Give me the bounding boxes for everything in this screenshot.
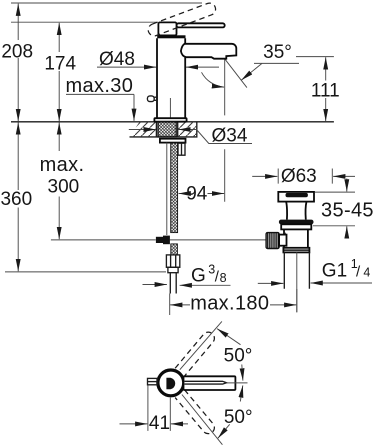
- pull rod line left of hose: [166, 143, 168, 235]
- top view: faucet body circle: [158, 370, 184, 396]
- mounting nut: [178, 143, 185, 155]
- dimension 94: [179, 184, 225, 205]
- pull rod inside body: [169, 98, 171, 118]
- dimension 174: [44, 23, 76, 121]
- dimension max.30: [66, 75, 135, 121]
- drain body: [284, 229, 308, 248]
- svg-text:G: G: [191, 266, 206, 287]
- svg-text:G1: G1: [322, 260, 347, 281]
- svg-text:/: /: [356, 263, 361, 280]
- deck cross-section bottom: [130, 122, 197, 137]
- cartridge collar (dark band): [157, 35, 185, 38]
- top view: handle raised -50 (dashed): [175, 390, 217, 436]
- drain gasket (dark): [279, 220, 314, 225]
- pull rod / extension line (max.300 reference): [51, 239, 266, 241]
- drain tailpipe center line: [296, 252, 298, 312]
- svg-text:50°: 50°: [224, 407, 253, 428]
- dimension G1 1/4: [258, 257, 372, 283]
- faucet body side view: [157, 38, 185, 118]
- drain plug (dark): [286, 193, 308, 197]
- svg-text:max.30: max.30: [66, 75, 134, 97]
- svg-text:4: 4: [363, 265, 370, 279]
- dimension 50 upper: [217, 329, 252, 381]
- G3/8 threaded tails: [170, 273, 176, 294]
- svg-text:35-45: 35-45: [321, 199, 373, 221]
- drain locknut: [283, 248, 309, 253]
- top view: handle raised +50 (dashed): [175, 330, 217, 376]
- svg-text:300: 300: [48, 176, 80, 197]
- deck hatch right: [178, 122, 197, 137]
- svg-text:50°: 50°: [224, 346, 253, 367]
- drain flange: [278, 192, 314, 202]
- svg-text:41: 41: [149, 413, 170, 434]
- dimension Ø34: [129, 126, 252, 147]
- drain tailpipe: [284, 252, 309, 288]
- dimension 360: [0, 122, 166, 272]
- top view: lever outline: [184, 376, 236, 390]
- dimension Ø48: [97, 49, 219, 70]
- dimension 111: [296, 57, 340, 122]
- svg-text:208: 208: [1, 41, 33, 62]
- top view: center line beyond lever: [227, 382, 248, 384]
- spout: [181, 44, 236, 59]
- flexible hose (braided): [171, 143, 178, 233]
- svg-text:Ø63: Ø63: [281, 166, 317, 187]
- top view: 50 degree extension line lower: [182, 395, 223, 445]
- svg-text:360: 360: [0, 189, 32, 210]
- top view: lever top face: [185, 381, 227, 384]
- hose below coupling: [171, 244, 178, 255]
- svg-text:35°: 35°: [263, 42, 292, 63]
- top view: handle hub (dark D): [166, 378, 175, 389]
- deck hole edges: [156, 122, 177, 137]
- dimension max.180: [170, 289, 297, 315]
- drain collar: [281, 224, 311, 229]
- pull rod knurled knob: [266, 233, 279, 249]
- dimension G 3/8: [143, 262, 231, 286]
- svg-text:max.: max.: [40, 154, 85, 176]
- svg-text:111: 111: [311, 81, 340, 102]
- deck hatch left: [130, 122, 157, 137]
- dimension 50 lower: [218, 385, 253, 438]
- handle raised position (dashed) side view: [146, 1, 217, 37]
- base plate: [154, 118, 186, 122]
- drain neck: [286, 202, 306, 220]
- deck / mounting surface line: [11, 121, 334, 123]
- top view: 50 degree extension line upper: [180, 321, 222, 369]
- dimension Ø63: [252, 166, 355, 187]
- svg-text:94: 94: [186, 184, 208, 205]
- handle hub side view: [158, 22, 176, 35]
- drain boss arc: [284, 232, 286, 246]
- dimension 41: [120, 386, 189, 435]
- dimension 35-45: [313, 179, 373, 234]
- svg-text:Ø34: Ø34: [212, 126, 248, 147]
- extension line spout end (94 / drain): [224, 59, 226, 202]
- drain pull knob on body: [147, 96, 157, 102]
- extension line top of hub (174): [11, 21, 158, 23]
- knob cylinder: [279, 235, 286, 246]
- handle lever side view: [177, 23, 225, 27]
- pull rod coupling: [156, 236, 170, 245]
- top view: left tab: [148, 378, 158, 384]
- threaded shank in deck: [158, 122, 176, 137]
- svg-text:174: 174: [44, 53, 76, 74]
- svg-text:max.180: max.180: [190, 292, 269, 314]
- horseshoe washer: [160, 139, 186, 143]
- svg-text:8: 8: [220, 271, 227, 285]
- hose hex nut: [166, 255, 179, 267]
- dimension max.300: [40, 122, 85, 239]
- dimension 208: [1, 4, 33, 122]
- extension line top of handle (208): [11, 2, 202, 4]
- dimension 35 degrees: [202, 42, 300, 87]
- hose fitting: [168, 267, 178, 272]
